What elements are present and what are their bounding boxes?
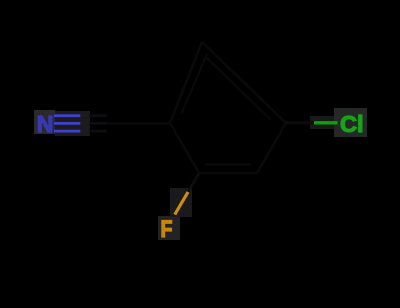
svg-text:Cl: Cl — [340, 111, 364, 137]
Cl bond chlorine half (green) — [314, 121, 338, 124]
ring bond LR-LL (bottom edge) — [199, 172, 257, 175]
ghost band behind Cl bond — [310, 116, 334, 129]
ring bond T-C4 (long upper-right edge) — [202, 42, 286, 123]
ring bond C4-LR (lower-right edge) — [257, 123, 286, 173]
svg-text:N: N — [37, 111, 54, 137]
F bond fluorine half (orange) — [175, 192, 188, 215]
inner double-bond line on T-C4 edge (upper-right) — [206, 57, 271, 120]
inner double-bond line on LL-LR bottom edge — [205, 163, 251, 165]
ghost band behind F bond — [170, 188, 192, 217]
inner double-bond line on C1-T edge — [182, 54, 208, 114]
ghost band behind triple bond — [55, 111, 90, 136]
label ghost box F — [158, 216, 180, 240]
F bond carbon half (dark) — [188, 174, 199, 193]
label ghost box Cl — [334, 108, 367, 137]
Cl bond carbon half (dark) — [286, 121, 314, 124]
label ghost box N — [34, 110, 55, 134]
ring bond LL-C1 (lower-left edge) — [170, 123, 199, 173]
ring bond C1-T (upper-left edge) — [170, 42, 202, 123]
triple bond N#C : carbon halves (dark) — [80, 114, 89, 117]
triple bond N#C : nitrogen halves (blue) — [54, 114, 80, 117]
nitrile single bond C1'(106.5,123)-C1(168,123) — [107, 122, 171, 125]
svg-text:F: F — [161, 215, 173, 243]
